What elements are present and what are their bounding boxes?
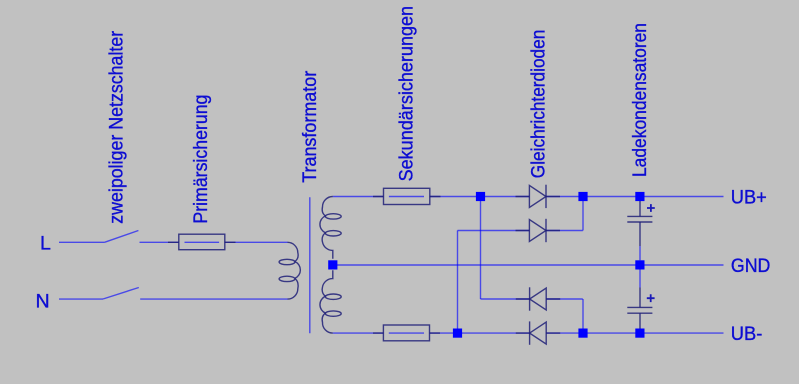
svg-text:Ladekondensatoren: Ladekondensatoren xyxy=(630,23,651,177)
svg-text:Transformator: Transformator xyxy=(300,70,321,183)
svg-text:N: N xyxy=(36,290,50,312)
svg-text:Gleichrichterdioden: Gleichrichterdioden xyxy=(528,30,549,179)
svg-text:GND: GND xyxy=(731,256,771,277)
svg-text:Sekundärsicherungen: Sekundärsicherungen xyxy=(397,6,418,182)
svg-text:UB-: UB- xyxy=(731,324,763,345)
svg-text:L: L xyxy=(40,233,51,255)
svg-text:UB+: UB+ xyxy=(731,187,767,208)
svg-text:zweipoliger Netzschalter: zweipoliger Netzschalter xyxy=(106,30,127,224)
svg-text:Primärsicherung: Primärsicherung xyxy=(191,95,212,224)
